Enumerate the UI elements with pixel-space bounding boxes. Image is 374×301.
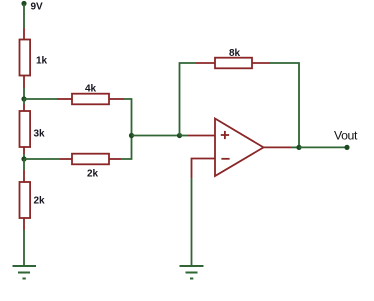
wire node B up to feedback R6: [180, 63, 197, 136]
resistor 8k feedback: [196, 58, 270, 69]
node A junction: [129, 133, 134, 138]
pin lead minus input: [192, 159, 216, 179]
wire R2 bottom to node V2: [23, 154, 25, 159]
wire R3 bottom to ground: [23, 230, 25, 266]
wire R1 bottom to node V1: [23, 88, 25, 99]
minus sign: [221, 158, 229, 160]
wire 9V to R1 top: [23, 4, 25, 28]
svg-text:1k: 1k: [36, 56, 48, 67]
svg-text:2k: 2k: [87, 169, 99, 180]
pin lead plus input: [188, 135, 215, 137]
svg-text:3k: 3k: [34, 129, 46, 140]
resistor 2k vertical: [20, 170, 31, 230]
power terminal 9V node: [21, 1, 26, 6]
wire node V1 to R4 left: [24, 98, 57, 100]
wire minus input to ground: [191, 178, 193, 266]
svg-text:2k: 2k: [34, 196, 46, 207]
svg-text:9V: 9V: [31, 2, 44, 13]
node V2 junction: [21, 156, 26, 161]
wire node A to node B: [132, 135, 180, 137]
wire node V2 to R3 top: [23, 159, 25, 170]
terminal Vout: [344, 145, 349, 150]
svg-text:Vout: Vout: [334, 129, 358, 143]
resistor 3k: [20, 104, 31, 154]
pin lead op-amp output: [264, 146, 292, 148]
resistor 2k horizontal: [60, 154, 121, 165]
wire node B to op-amp plus input: [180, 135, 189, 137]
wire R5 right to node A: [121, 136, 132, 160]
op-amp U1: [215, 119, 264, 177]
ground symbol left: [13, 266, 37, 279]
wire node V1 to R2 top: [23, 99, 25, 104]
svg-text:8k: 8k: [229, 48, 241, 59]
node output junction: [296, 145, 301, 150]
wire node V2 to R5 left: [24, 158, 60, 160]
resistor 4k: [57, 94, 124, 105]
wire R4 right to node A: [124, 99, 132, 136]
wire output node to Vout terminal: [299, 146, 347, 148]
plus sign: [221, 131, 229, 139]
svg-text:4k: 4k: [85, 84, 97, 95]
resistor 1k: [20, 28, 31, 88]
wire R6 right down to output node: [270, 63, 299, 147]
node V1 junction: [21, 96, 26, 101]
ground symbol right: [180, 266, 204, 279]
node B junction: [177, 133, 182, 138]
wire output lead to output node: [291, 146, 299, 148]
